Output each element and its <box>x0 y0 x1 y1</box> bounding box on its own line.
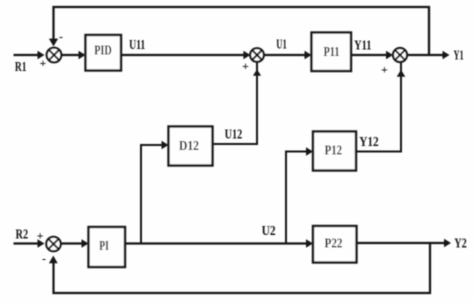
wire feedback loop2 bottom <box>49 243 430 293</box>
svg-text:+: + <box>37 228 44 242</box>
svg-text:U1: U1 <box>276 38 287 53</box>
block P22 <box>313 226 357 263</box>
summing junction S2 <box>250 48 264 62</box>
wire feedback loop1 top <box>49 7 429 55</box>
wire P11 to S3 <box>351 51 393 59</box>
svg-text:R2: R2 <box>16 228 29 243</box>
svg-text:Y11: Y11 <box>354 38 371 53</box>
wire P22 to Y2 output <box>357 239 452 247</box>
svg-text:R1: R1 <box>15 60 27 75</box>
svg-text:-: - <box>59 30 63 44</box>
wire S4 to PI <box>61 239 89 247</box>
summing junction S4 <box>46 237 60 251</box>
svg-text:U12: U12 <box>225 128 243 143</box>
summing junction S3 <box>393 48 407 62</box>
svg-text:D12: D12 <box>179 139 199 154</box>
wire PID to S2 <box>121 51 250 59</box>
block P12 <box>313 132 356 171</box>
wire D12 to S2 <box>213 63 262 145</box>
wire R1 input <box>14 51 45 59</box>
svg-text:Y12: Y12 <box>359 135 379 150</box>
svg-text:+: + <box>381 63 388 77</box>
svg-text:U11: U11 <box>129 38 145 53</box>
wire R2 input <box>14 239 45 247</box>
svg-text:P12: P12 <box>325 144 343 159</box>
svg-text:P22: P22 <box>325 237 343 252</box>
svg-text:PI: PI <box>99 239 109 254</box>
wire P12 to S3 <box>356 63 405 152</box>
svg-text:+: + <box>242 59 249 73</box>
wire S3 to Y1 output <box>407 51 450 59</box>
svg-text:Y2: Y2 <box>454 237 467 252</box>
wire PI to P22 (U2 line) <box>125 239 313 247</box>
svg-text:U2: U2 <box>262 224 276 239</box>
wire branch from U2 line up to D12 <box>141 141 169 244</box>
summing junction S1 <box>47 48 62 63</box>
wire branch from U2 line up to P12 <box>286 147 313 243</box>
block PI <box>89 227 126 267</box>
block P11 <box>312 33 352 72</box>
svg-text:Y1: Y1 <box>454 48 464 63</box>
wire S1 to PID <box>62 51 86 59</box>
wire S2 to P11 <box>264 51 312 59</box>
svg-text:+: + <box>40 56 47 70</box>
block PID <box>86 35 122 71</box>
block D12 <box>169 127 213 166</box>
svg-text:P11: P11 <box>324 45 340 60</box>
svg-text:-: - <box>42 252 46 266</box>
svg-text:PID: PID <box>94 44 112 59</box>
